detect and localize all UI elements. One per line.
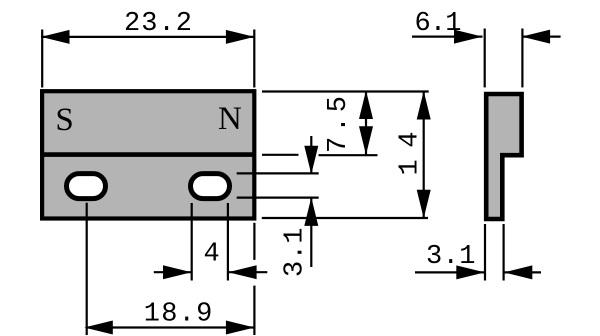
dimension 6.1 arrow pointing left (522, 30, 551, 44)
dimension 3.1 thickness arrow pointing left (504, 265, 533, 279)
dimension 6.1 line left segment (412, 35, 483, 37)
dimension 14 arrow down (417, 190, 431, 219)
dimension 3.1 thickness line left segment (415, 271, 485, 273)
dimension 7.5 arrow down (359, 126, 373, 155)
body right extension line lower segment (253, 286, 255, 335)
dimension 14 line (423, 91, 425, 218)
svg-text:3.1: 3.1 (426, 242, 476, 272)
left slot hole (67, 174, 106, 199)
dimension 23.2 line (41, 36, 255, 38)
dimension 4 line right segment (228, 271, 267, 273)
dimension 23.2 arrow right (226, 30, 255, 44)
svg-text:18.9: 18.9 (144, 299, 213, 329)
svg-text:N: N (218, 101, 242, 137)
hole top extension line (237, 172, 319, 174)
dimension 3.1 slot arrow up (304, 197, 318, 226)
dimension 4 arrow pointing right (163, 265, 192, 279)
hole bottom extension line (237, 197, 319, 199)
svg-text:7.5: 7.5 (324, 96, 354, 153)
dimension 7.5 line (365, 91, 367, 155)
svg-text:23.2: 23.2 (124, 9, 192, 39)
svg-text:S: S (55, 102, 73, 138)
dimension 4 line left segment (154, 271, 192, 273)
dimension 18.9 line (86, 326, 254, 328)
side view profile (486, 94, 521, 219)
top reference line for 7.5 and 14 (262, 90, 429, 92)
dimension 18.9 arrow left (84, 321, 113, 335)
body right extension line upper segment (253, 223, 255, 260)
dimension 4 arrow pointing left (228, 265, 257, 279)
svg-text:4: 4 (204, 239, 220, 269)
dimension 6.1 extension line right (521, 29, 523, 88)
dimension 3.1 slot lower shaft (310, 197, 312, 267)
dimension 4 extension line right (227, 203, 229, 281)
right slot hole (191, 174, 230, 199)
dimension 3.1 thickness extension line right (503, 224, 505, 281)
dimension 23.2 extension line right (253, 30, 255, 88)
bottom reference line for 14 (262, 217, 428, 219)
dimension 4 extension line left (191, 203, 193, 281)
dimension 3.1 thickness arrow pointing right (456, 265, 485, 279)
dimension 6.1 line right segment (522, 35, 561, 37)
svg-text:6.1: 6.1 (415, 9, 462, 39)
divider line between magnet and base (41, 152, 255, 157)
dimension 18.9 arrow right (226, 321, 255, 335)
dimension 3.1 slot arrow down (304, 146, 318, 175)
dimension 6.1 extension line left (484, 29, 486, 88)
divider extension line (262, 154, 299, 156)
dimension 3.1 thickness line right segment (504, 271, 541, 273)
left hole center extension line (86, 203, 88, 335)
magnet body front view (42, 91, 254, 218)
dimension 7.5 arrow up (359, 91, 373, 120)
dimension 14 arrow up (417, 91, 431, 120)
dimension 3.1 thickness extension line left (484, 224, 486, 281)
dimension 23.2 arrow left (41, 30, 70, 44)
svg-text:3.1: 3.1 (281, 228, 311, 278)
dimension 3.1 slot upper shaft (310, 136, 312, 174)
reference line for 7.5 bottom (319, 154, 378, 156)
dimension 23.2 extension line left (41, 30, 43, 88)
dimension 6.1 arrow pointing right (454, 30, 483, 44)
